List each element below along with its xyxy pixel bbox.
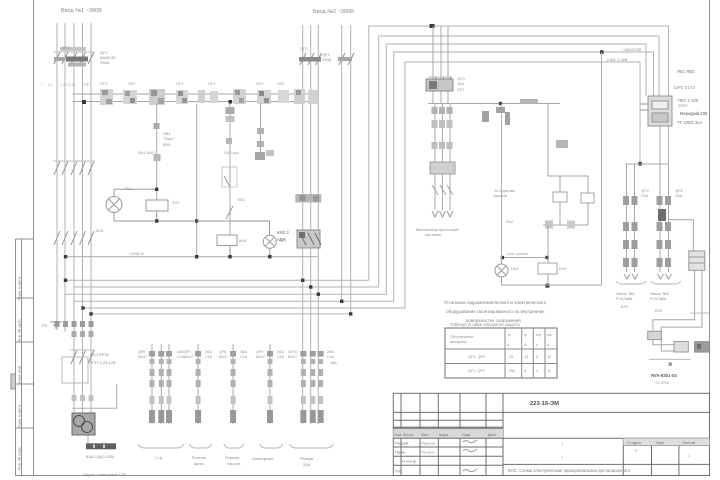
svg-text:ВА47: ВА47 bbox=[219, 355, 228, 359]
svg-text:QF4, QF5: QF4, QF5 bbox=[468, 355, 485, 359]
transformer label bbox=[86, 443, 116, 449]
svg-text:1 гр.: 1 гр. bbox=[155, 455, 163, 460]
svg-text:КНС. Схема электрическая принц: КНС. Схема электрическая принципиальная … bbox=[508, 468, 631, 473]
svg-text:У2 IP54: У2 IP54 bbox=[655, 380, 670, 385]
svg-text:Стадия: Стадия bbox=[627, 440, 641, 445]
svg-text:Пров.: Пров. bbox=[395, 450, 406, 455]
feeder mid marks bbox=[150, 369, 324, 404]
feeder 3 bbox=[232, 344, 234, 424]
wire drop QF3 c bbox=[447, 26, 449, 104]
label bus PEN bbox=[40, 82, 90, 87]
resistor R1 bbox=[114, 189, 197, 221]
svg-text:PE: PE bbox=[84, 82, 90, 87]
pump braces bbox=[616, 281, 681, 284]
svg-text:HL1: HL1 bbox=[125, 186, 133, 191]
svg-text:"Пуск": "Пуск" bbox=[163, 136, 175, 141]
junction dots control bbox=[155, 188, 198, 259]
feeder end lugs bbox=[149, 410, 324, 423]
svg-text:оборудования смонтированного н: оборудования смонтированного на внутренн… bbox=[446, 309, 545, 314]
svg-text:ВА47: ВА47 bbox=[184, 355, 193, 359]
PE symbol bbox=[50, 322, 62, 328]
switch QS3 bbox=[70, 350, 95, 364]
svg-text:КЛ1: КЛ1 bbox=[621, 304, 629, 309]
svg-text:ВА47: ВА47 bbox=[138, 355, 147, 359]
svg-text:Таблица уставок аппаратов защи: Таблица уставок аппаратов защиты bbox=[450, 322, 520, 327]
svg-text:ВА47: ВА47 bbox=[288, 355, 297, 359]
wire L3 input1 bbox=[73, 23, 75, 413]
pump labels bbox=[616, 291, 670, 313]
svg-text:PE: PE bbox=[42, 323, 48, 328]
switch QS2 contacts input2 bbox=[295, 194, 321, 203]
motor arrows bbox=[432, 211, 453, 217]
svg-text:Утв.: Утв. bbox=[395, 469, 403, 474]
svg-text:16А: 16А bbox=[277, 350, 284, 354]
wire PE input1 bbox=[90, 23, 92, 413]
svg-text:с: с bbox=[536, 343, 538, 347]
svg-text:Лист: Лист bbox=[656, 440, 665, 445]
wire loop E bbox=[83, 62, 640, 308]
svg-text:реле уровня: реле уровня bbox=[507, 252, 528, 256]
contactor KM2 box bbox=[297, 230, 321, 248]
wire drop 2 bbox=[196, 104, 198, 257]
svg-text:ЩАО (ЩО 12В): ЩАО (ЩО 12В) bbox=[86, 454, 115, 459]
svg-text:ЯВ1 ЯВЗ: ЯВ1 ЯВЗ bbox=[677, 69, 695, 74]
box around QS3 bbox=[62, 357, 88, 383]
control feed bus bbox=[428, 103, 560, 105]
svg-text:250: 250 bbox=[509, 369, 515, 373]
bus junction dots bbox=[82, 93, 315, 105]
ats wire 1 bbox=[653, 270, 695, 344]
svg-text:КМ1: КМ1 bbox=[163, 142, 172, 147]
svg-text:уровня: уровня bbox=[494, 193, 507, 198]
svg-text:КМ1: КМ1 bbox=[239, 238, 248, 243]
svg-text:Освещение: Освещение bbox=[252, 456, 274, 461]
svg-text:Р: Р bbox=[635, 448, 638, 453]
contact marks on feeders to QS3 bbox=[55, 321, 94, 401]
svg-text:16А: 16А bbox=[205, 350, 212, 354]
svg-text:КМ2,3: КМ2,3 bbox=[277, 230, 289, 235]
contact KM aux upper bbox=[154, 107, 235, 161]
svg-text:С16: С16 bbox=[240, 355, 247, 359]
breaker QF3 bbox=[426, 77, 453, 91]
svg-text:Меркурий 230: Меркурий 230 bbox=[680, 111, 708, 116]
svg-text:А: А bbox=[547, 343, 550, 347]
svg-text:Подп.: Подп. bbox=[462, 433, 471, 437]
ats tick bbox=[669, 363, 672, 366]
svg-text:L2 L3 N: L2 L3 N bbox=[61, 82, 75, 87]
label HL1 bbox=[125, 186, 133, 191]
svg-text:?: ? bbox=[561, 442, 564, 447]
svg-text:QF2: QF2 bbox=[300, 46, 309, 51]
svg-text:~380/220В: ~380/220В bbox=[622, 47, 642, 52]
svg-text:16А: 16А bbox=[457, 81, 464, 86]
svg-text:Н.контр.: Н.контр. bbox=[402, 459, 417, 464]
node Ввод №1 label bbox=[61, 8, 102, 14]
svg-text:KV1: KV1 bbox=[172, 200, 180, 205]
svg-text:насосн.: насосн. bbox=[227, 461, 241, 466]
svg-text:QF6: QF6 bbox=[138, 350, 145, 354]
svg-text:Иванов: Иванов bbox=[421, 441, 435, 446]
wire L1 input2 bbox=[302, 25, 304, 424]
svg-text:С16: С16 bbox=[205, 355, 212, 359]
wire N input1 bbox=[82, 23, 84, 413]
wire PE input2 bbox=[350, 25, 352, 314]
wire drop SB bbox=[156, 104, 158, 201]
svg-text:Разраб.: Разраб. bbox=[395, 441, 409, 446]
wire drop QF3 b bbox=[440, 26, 442, 104]
svg-text:ШРС-21У3: ШРС-21У3 bbox=[674, 85, 695, 90]
svg-text:25: 25 bbox=[509, 355, 513, 359]
aux labels bbox=[138, 150, 240, 155]
label 220V bbox=[128, 251, 144, 256]
svg-text:KV2: KV2 bbox=[559, 266, 567, 271]
doc code bbox=[530, 401, 559, 407]
pump2 wire a bbox=[659, 164, 661, 272]
bus component marks bbox=[100, 89, 318, 105]
svg-text:100А: 100А bbox=[678, 103, 688, 108]
feeder breakers bbox=[149, 351, 324, 364]
svg-text:tср: tср bbox=[536, 333, 541, 337]
svg-text:Резерв: Резерв bbox=[300, 456, 313, 461]
svg-text:QF1, QF2: QF1, QF2 bbox=[468, 369, 485, 373]
control bus N bbox=[66, 256, 319, 258]
misc control components bbox=[482, 99, 568, 148]
svg-text:QF8: QF8 bbox=[219, 350, 226, 354]
bus bar 2 bbox=[73, 101, 316, 103]
label R1 bbox=[172, 200, 180, 205]
wire to ATS bbox=[669, 220, 694, 251]
svg-text:С16: С16 bbox=[327, 355, 334, 359]
svg-text:25А: 25А bbox=[675, 193, 682, 198]
svg-text:SF3: SF3 bbox=[176, 81, 184, 86]
svg-text:Розетки: Розетки bbox=[225, 455, 239, 460]
svg-text:Листов: Листов bbox=[682, 440, 695, 445]
svg-text:№док.: №док. bbox=[439, 433, 449, 437]
svg-text:25А: 25А bbox=[641, 193, 648, 198]
svg-text:Р=5,5кВт: Р=5,5кВт bbox=[650, 296, 667, 301]
switch QS1 row2 bbox=[54, 231, 94, 245]
svg-text:ТТ 100/5 3шт: ТТ 100/5 3шт bbox=[677, 120, 703, 125]
label motor bbox=[416, 227, 458, 237]
pump arrows bbox=[624, 274, 672, 279]
svg-text:Iкз: Iкз bbox=[547, 333, 552, 337]
pump feed bus bbox=[625, 163, 669, 165]
svg-text:QS3 ВР32: QS3 ВР32 bbox=[90, 352, 110, 357]
svg-text:Ввод №1 ~380В: Ввод №1 ~380В bbox=[61, 8, 102, 14]
name cell text bbox=[561, 442, 564, 460]
svg-text:КК1: КК1 bbox=[238, 197, 246, 202]
svg-text:А: А bbox=[507, 343, 510, 347]
feeder group1 b bbox=[160, 344, 162, 424]
svg-text:10: 10 bbox=[547, 369, 551, 373]
svg-text:SL2: SL2 bbox=[506, 219, 514, 224]
svg-text:SA2 руч.: SA2 руч. bbox=[224, 150, 240, 155]
svg-text:?: ? bbox=[561, 455, 564, 460]
link wires bbox=[72, 384, 117, 444]
wire L1 input1 bbox=[56, 23, 58, 330]
feeder braces bbox=[138, 444, 334, 448]
wire L3 input2 bbox=[317, 25, 319, 424]
svg-text:SF2: SF2 bbox=[128, 81, 136, 86]
control segment right bbox=[502, 257, 547, 259]
thermal relay KK1 bbox=[430, 162, 455, 195]
ats box dark bbox=[695, 342, 710, 352]
svg-text:~220В N: ~220В N bbox=[128, 251, 144, 256]
bus bar 1 bbox=[73, 93, 316, 95]
feeder group labels bbox=[155, 455, 313, 467]
svg-text:системы: системы bbox=[425, 232, 441, 237]
pump1 wire b bbox=[634, 164, 636, 272]
svg-text:HL2: HL2 bbox=[279, 238, 287, 243]
svg-text:Кол.уч: Кол.уч bbox=[403, 433, 414, 437]
svg-text:Лист: Лист bbox=[421, 433, 429, 437]
feeder 4 bbox=[269, 344, 271, 424]
svg-text:SF4: SF4 bbox=[208, 81, 216, 86]
lamp HL2 bbox=[197, 221, 277, 257]
svg-text:8: 8 bbox=[524, 369, 526, 373]
node Ввод №2 label bbox=[313, 9, 354, 15]
pump1 wire a bbox=[626, 164, 628, 272]
frame bottom line bbox=[16, 475, 710, 477]
wire N input2 bbox=[341, 25, 343, 301]
terminal box XT bbox=[689, 251, 705, 271]
motor feeder wires bbox=[435, 104, 450, 211]
svg-text:КМ1: КМ1 bbox=[96, 228, 105, 233]
svg-text:Перен. освещение 12В: Перен. освещение 12В bbox=[83, 472, 126, 477]
ats labels bbox=[651, 373, 677, 385]
svg-text:Установка гидромеханического и: Установка гидромеханического и электриче… bbox=[444, 300, 547, 305]
svg-text:к ЩУ 0,4кВ: к ЩУ 0,4кВ bbox=[607, 57, 628, 62]
lamp HL3 bbox=[495, 264, 508, 277]
wire drop 3 bbox=[229, 104, 231, 236]
svg-text:L1: L1 bbox=[48, 82, 53, 87]
svg-text:С16: С16 bbox=[277, 355, 284, 359]
svg-text:SF7: SF7 bbox=[457, 87, 465, 92]
bottom name row bbox=[508, 468, 631, 473]
left margin small tab bbox=[11, 374, 16, 389]
svg-text:щита: щита bbox=[194, 461, 204, 466]
svg-text:SF6: SF6 bbox=[277, 81, 285, 86]
svg-text:аппарата: аппарата bbox=[450, 340, 467, 344]
wire drop QF3 a bbox=[432, 26, 434, 104]
svg-text:QF10: QF10 bbox=[288, 350, 298, 354]
feeder 2 bbox=[197, 344, 199, 424]
svg-text:25А: 25А bbox=[327, 350, 334, 354]
contact KM aux bbox=[222, 167, 237, 219]
svg-text:QF1: QF1 bbox=[62, 45, 71, 50]
svg-text:Дата: Дата bbox=[488, 433, 496, 437]
wire loop A bbox=[66, 26, 669, 280]
lamp HL1 bbox=[106, 189, 122, 221]
svg-text:Петров: Петров bbox=[421, 450, 434, 455]
svg-text:ЯУА-8301-03: ЯУА-8301-03 bbox=[651, 373, 677, 378]
bus labels row bbox=[100, 81, 285, 86]
motor column marks bbox=[432, 107, 453, 149]
svg-text:10: 10 bbox=[547, 355, 551, 359]
wire loop D bbox=[74, 52, 654, 301]
svg-text:223-16-ЭМ: 223-16-ЭМ bbox=[530, 401, 559, 407]
breaker QF1 bbox=[53, 47, 95, 67]
pump fuse marks bbox=[623, 196, 671, 267]
svg-text:16А: 16А bbox=[330, 361, 337, 365]
svg-text:SA1 АВР: SA1 АВР bbox=[138, 150, 155, 155]
svg-text:Р=5,5кВт: Р=5,5кВт bbox=[616, 296, 633, 301]
svg-text:ВА47: ВА47 bbox=[256, 355, 265, 359]
switch QS1 row1 bbox=[53, 161, 95, 175]
svg-text:16А: 16А bbox=[240, 350, 247, 354]
svg-text:25А: 25А bbox=[303, 462, 310, 467]
title block texts bbox=[395, 433, 496, 474]
stadiya cells bbox=[623, 438, 709, 445]
frame left line bbox=[33, 0, 35, 476]
svg-text:А: А bbox=[524, 343, 527, 347]
svg-text:4: 4 bbox=[536, 369, 538, 373]
ats wire 3 bbox=[649, 358, 691, 360]
svg-text:QF9: QF9 bbox=[256, 350, 263, 354]
signature scribbles bbox=[463, 440, 477, 472]
svg-text:Взам. инв.: Взам. инв. bbox=[17, 365, 22, 384]
svg-text:6: 6 bbox=[536, 355, 538, 359]
svg-text:HL3: HL3 bbox=[511, 266, 519, 271]
wire loop C bbox=[66, 44, 647, 294]
svg-text:SF1: SF1 bbox=[100, 81, 108, 86]
svg-text:SF5: SF5 bbox=[256, 81, 264, 86]
svg-text:250А: 250А bbox=[100, 60, 110, 65]
svg-text:Iу: Iу bbox=[524, 333, 527, 337]
svg-text:Розетки: Розетки bbox=[192, 455, 206, 460]
svg-text:Ввод №2 ~380В: Ввод №2 ~380В bbox=[313, 9, 354, 15]
svg-text:250А: 250А bbox=[322, 57, 332, 62]
svg-text:Изм.: Изм. bbox=[395, 433, 403, 437]
float switch circuit bbox=[502, 104, 603, 286]
ats wire 2 bbox=[661, 270, 702, 351]
transformer TV1 bbox=[72, 413, 95, 435]
svg-text:~: ~ bbox=[40, 82, 43, 87]
svg-text:QF7: QF7 bbox=[184, 350, 191, 354]
label 0,4kV bbox=[607, 47, 642, 62]
wire loop B bbox=[74, 36, 659, 287]
svg-text:Инв. № подл.: Инв. № подл. bbox=[17, 446, 22, 471]
meter drop bbox=[659, 126, 661, 164]
aux switch drop bbox=[260, 104, 262, 161]
svg-text:С16: С16 bbox=[177, 355, 184, 359]
left margin strip bbox=[16, 239, 34, 476]
feeder group1 a bbox=[151, 344, 153, 424]
svg-text:КЛ2: КЛ2 bbox=[655, 308, 663, 313]
svg-text:Обозначение: Обозначение bbox=[450, 335, 473, 339]
svg-text:1: 1 bbox=[688, 453, 691, 458]
frame right line bbox=[709, 0, 711, 476]
wire L2 input1 bbox=[64, 23, 66, 332]
wire L2 input2 bbox=[310, 25, 312, 424]
label SB1 bbox=[163, 131, 175, 147]
breaker QF2 bbox=[299, 53, 354, 65]
meter box PI bbox=[640, 96, 672, 126]
pump2 wire b bbox=[668, 164, 670, 272]
feeder group1 c bbox=[168, 344, 170, 424]
svg-text:Подп. и дата: Подп. и дата bbox=[17, 404, 22, 428]
wire loop F PE tie bbox=[91, 313, 351, 315]
svg-text:Iн: Iн bbox=[508, 333, 511, 337]
wire N drop right bbox=[601, 52, 603, 285]
svg-text:Инв. № дубл.: Инв. № дубл. bbox=[17, 318, 22, 343]
feeder labels bbox=[138, 350, 337, 365]
svg-text:Подп. и дата: Подп. и дата bbox=[17, 276, 22, 300]
coil KM1 bbox=[217, 235, 237, 257]
wire lamp drop bbox=[501, 104, 503, 258]
svg-text:14: 14 bbox=[524, 355, 528, 359]
left margin strip rotated labels bbox=[17, 276, 22, 470]
ats relay box 2 bbox=[674, 342, 688, 353]
junction dots loops bbox=[64, 24, 642, 316]
ats relay box 1 bbox=[648, 331, 662, 339]
svg-text:ЯТП-0,25 12В: ЯТП-0,25 12В bbox=[90, 360, 116, 365]
